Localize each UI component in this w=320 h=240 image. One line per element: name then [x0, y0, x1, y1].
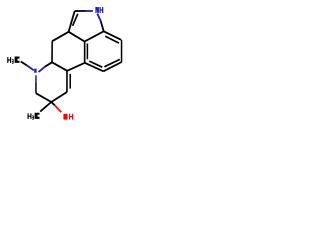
bond C9=C10 main — [66, 71, 68, 92]
label H3C on N6: subscript 3 — [12, 59, 14, 63]
bond C7a=C7 main — [104, 31, 121, 40]
bond N1-C7a blue half — [97, 14, 100, 21]
bond C7r-C8 — [36, 93, 52, 102]
bond C5-N6 black half — [45, 62, 52, 67]
atom label N1: letter H — [100, 7, 104, 13]
bond C4-C5 — [51, 41, 53, 62]
label H3C on C8: letter C — [35, 113, 40, 119]
bond C5b=C4a inner — [89, 61, 102, 67]
atom label N6: letter N — [34, 69, 36, 73]
label OH on C8: letter O — [63, 114, 67, 120]
bond C4a-C3a main — [84, 42, 86, 63]
bond C2=C3 inner — [73, 14, 78, 26]
bond C8-CH3 — [40, 102, 51, 112]
label H3C on N6: letter H — [7, 57, 11, 63]
bond C6=C5b inner — [104, 59, 119, 66]
bond C6-C5b main — [103, 62, 121, 71]
bond C9=C10 inner — [69, 74, 71, 89]
bond C8-OH black half — [51, 102, 55, 105]
bond C5b-C4a main — [85, 63, 104, 72]
bond C3a-C7a — [85, 31, 104, 41]
bond C5-C10 — [52, 62, 67, 71]
bond N1-C2 blue half — [86, 10, 93, 12]
label OH on C8: letter H — [69, 114, 73, 120]
bond C8-C9 — [51, 92, 67, 102]
bond C10-C4a — [67, 63, 85, 71]
bond C8-OH red half — [55, 105, 61, 112]
bond N1-C2 black half — [75, 10, 86, 12]
bond C3-C4 — [52, 32, 68, 41]
bond C7a=C7 inner — [105, 36, 119, 43]
bond N6-CH3 black half — [21, 62, 27, 66]
bond N6-CH3 blue half — [27, 65, 34, 70]
label H3C on C8: subscript 3 — [32, 116, 34, 120]
label H3C on N6: letter C — [15, 57, 20, 63]
bond C7-C6 — [121, 40, 123, 62]
bond C3-C3a — [69, 32, 85, 42]
atom label N1: letter N — [95, 7, 98, 13]
bond N6-C7r blue half — [35, 75, 37, 82]
label H3C on C8: letter H — [28, 113, 32, 119]
bond N1-C7a black half — [101, 21, 104, 32]
bond C5-N6 blue half — [39, 67, 45, 72]
bond C4a=C3a inner — [86, 44, 88, 60]
bond N6-C7r black half — [35, 82, 37, 93]
bond C2=C3 main — [69, 11, 75, 32]
